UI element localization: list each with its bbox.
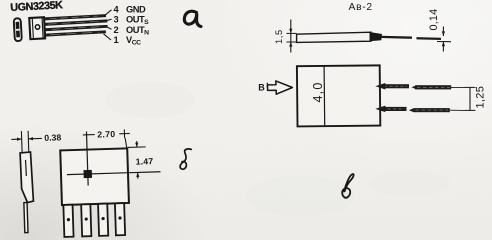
package front view (fig a) bbox=[29, 17, 45, 39]
lead 1 (bottom) bbox=[45, 30, 106, 36]
side view lead bbox=[24, 203, 28, 233]
lead 3 (fig b) bbox=[98, 204, 108, 236]
IC body group (tilted like the scan) bbox=[14, 13, 108, 41]
dimension 2.70 bbox=[83, 129, 131, 149]
block arrow for B bbox=[268, 81, 293, 94]
crosshair vertical centreline bbox=[86, 132, 88, 186]
package side view (fig b) bbox=[20, 152, 33, 203]
upper lead (fig v) bbox=[377, 84, 465, 90]
dimension 1.47 bbox=[127, 141, 146, 179]
package front view (fig b) bbox=[60, 148, 129, 205]
sensor centre dot bbox=[83, 170, 92, 178]
leader line to pin 2 bbox=[107, 27, 112, 29]
dimension 1,5 bbox=[287, 20, 297, 53]
crosshair horizontal centreline bbox=[67, 172, 160, 175]
lead 1 (fig b) bbox=[63, 205, 73, 237]
lead 4 (top) bbox=[44, 14, 106, 20]
leader line to pin 3 bbox=[107, 19, 112, 20]
handwritten letter a bbox=[184, 11, 201, 26]
leader line to pin 1 bbox=[104, 34, 112, 40]
lead 2 bbox=[45, 25, 108, 31]
side view thin package (fig v) bbox=[297, 32, 382, 42]
handwritten letter v bbox=[342, 174, 353, 198]
handwritten letter b (Cyrillic delta) bbox=[180, 149, 191, 169]
lower lead (fig v) bbox=[377, 106, 465, 112]
internal dimension line 4,0 bbox=[323, 67, 326, 126]
package side view (fig a) bbox=[14, 18, 22, 41]
top view square package (fig v) bbox=[297, 65, 380, 126]
faint scan smudges bbox=[105, 82, 450, 216]
side view lead line bbox=[380, 36, 412, 39]
part number label UGN3235K bbox=[10, 0, 63, 14]
dimension 1,25 bbox=[465, 87, 476, 110]
dimension 0,14 bbox=[437, 27, 451, 52]
leader line to pin 4 bbox=[105, 10, 112, 16]
lead 2 (fig b) bbox=[81, 204, 91, 236]
dimension 0.38 bbox=[11, 130, 42, 153]
lead 4 (fig b) bbox=[115, 203, 125, 235]
lead 3 bbox=[44, 19, 107, 25]
